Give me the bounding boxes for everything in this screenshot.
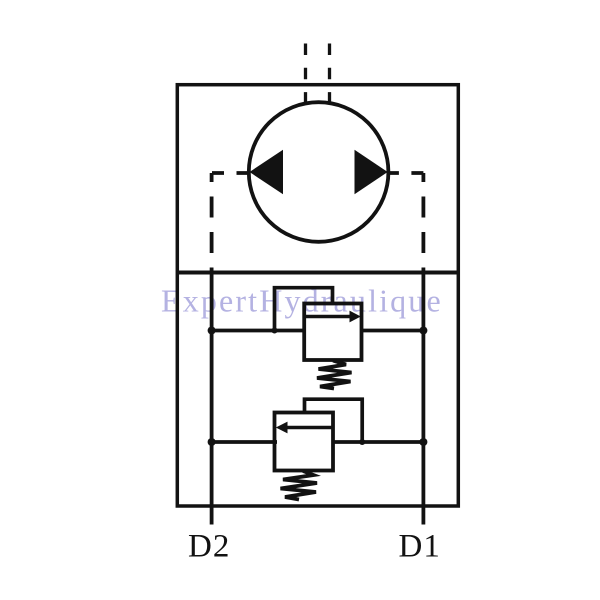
motor right triangle <box>355 150 388 194</box>
junction dot upper-right <box>419 327 427 335</box>
relief valve V1 arrow <box>306 315 352 318</box>
rail D1 (right vertical line) <box>421 273 425 525</box>
relief valve V1 spring <box>317 361 352 389</box>
svg-text:D1: D1 <box>399 529 441 565</box>
enclosure box <box>177 85 458 506</box>
svg-text:D2: D2 <box>188 529 230 565</box>
relief valve V1 body <box>304 304 361 361</box>
motor M1 circle <box>249 102 389 242</box>
relief valve V2 arrow <box>287 426 332 429</box>
relief valve V2 body <box>275 413 334 471</box>
drain line right (dashed, top) <box>328 44 331 103</box>
pilot line left vertical (dashed) <box>210 173 214 273</box>
pilot line right horizontal (dashed) <box>387 171 424 175</box>
lower branch line left segment <box>212 440 277 444</box>
upper branch line right segment <box>360 329 423 333</box>
junction dot upper-left <box>208 327 216 335</box>
junction dot lower-left <box>208 438 216 446</box>
lower branch line right segment <box>332 440 424 444</box>
relief valve V2 spring <box>281 471 318 500</box>
junction dot V1 loop / branch <box>272 328 278 334</box>
upper branch line left segment <box>212 329 306 333</box>
pilot line left horizontal (dashed) <box>212 171 249 175</box>
junction dot V2 loop / branch <box>359 439 365 445</box>
relief valve V1 pilot loop <box>275 288 333 331</box>
pilot line right vertical (dashed) <box>421 173 425 273</box>
relief valve V2 pilot loop <box>305 399 363 442</box>
rail D2 (left vertical line) <box>210 273 214 525</box>
junction dot lower-right <box>419 438 427 446</box>
drain line left (dashed, top) <box>304 44 307 103</box>
enclosure divider line <box>177 271 458 275</box>
motor left triangle <box>250 150 284 194</box>
